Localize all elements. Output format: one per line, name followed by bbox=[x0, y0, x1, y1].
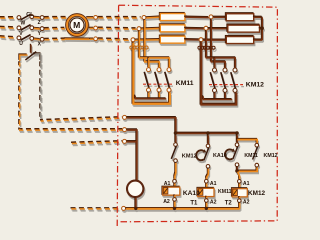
slip ring 2 bbox=[136, 46, 139, 49]
contact KM12 pole 3 bottom bbox=[233, 88, 237, 92]
wire L1 motor to terminal bbox=[86, 16, 93, 18]
contact KM12 pole 1 bottom bbox=[213, 88, 217, 92]
wire lamp feed bbox=[126, 129, 136, 180]
contact KA10 blade bbox=[204, 148, 209, 161]
wire L2 switch to motor dashed bbox=[44, 26, 65, 28]
node KM11 A1 bbox=[205, 179, 209, 183]
resistor R22 bbox=[227, 24, 259, 31]
contact KM12 bottom bbox=[174, 159, 178, 163]
contact KM12 pole 2 bottom bbox=[223, 88, 227, 92]
motor M ring inner outline bbox=[68, 16, 85, 33]
wire R21 lead-out bbox=[253, 15, 262, 17]
node L1 switch mid terminal bbox=[30, 15, 34, 19]
lamp HL1 bbox=[127, 181, 143, 197]
wire R23 lead-in bbox=[203, 38, 226, 40]
contact KM11 pole 2 top bbox=[157, 68, 161, 72]
enclosure border left bbox=[117, 5, 118, 226]
node R21 input terminal bbox=[209, 15, 213, 19]
switch CL pole 3 blade bbox=[21, 35, 31, 41]
node L1 enclosure terminal bbox=[142, 16, 146, 20]
svg-text:A2: A2 bbox=[210, 199, 217, 205]
contact KM12b blade bbox=[253, 147, 258, 160]
wire L1 rotor lead dashed bbox=[98, 16, 141, 18]
wire KM11 to rail bbox=[205, 202, 207, 208]
node L1 switch left terminal bbox=[17, 16, 21, 20]
wire KM12 left bypass bbox=[201, 41, 236, 103]
slip ring stage2 2 bbox=[203, 46, 206, 49]
node KM12 A1 bbox=[238, 180, 242, 184]
node L1 rotor terminal bbox=[94, 16, 98, 20]
wire input3 stub bbox=[126, 140, 135, 142]
switch Q2 left arm bbox=[19, 54, 27, 60]
svg-text:KM11: KM11 bbox=[244, 153, 258, 159]
contact KA10 bottom bbox=[206, 165, 210, 169]
wire L3 motor to terminal bbox=[89, 37, 93, 39]
wire control rail bbox=[175, 131, 237, 133]
node L2 terminal bbox=[40, 27, 44, 31]
motor M body bbox=[70, 18, 84, 32]
node L2 switch mid terminal bbox=[30, 26, 34, 30]
node R22 input terminal bbox=[204, 26, 208, 30]
contact KM12 blade bbox=[171, 146, 176, 159]
svg-text:A1: A1 bbox=[243, 181, 250, 187]
node KM11 A2 bbox=[205, 199, 209, 203]
contact KM12b top bbox=[255, 143, 259, 147]
junction rail-KM11 bbox=[206, 131, 210, 135]
junction rail-lamp bbox=[134, 207, 137, 210]
enclosure border bbox=[118, 5, 278, 222]
wire R11 lead-in bbox=[146, 15, 161, 18]
wire KM12 bottom lead bbox=[238, 196, 240, 198]
switch Q2 right arm bbox=[33, 53, 40, 60]
svg-text:CL: CL bbox=[26, 12, 34, 18]
switch Q2 stem bbox=[29, 44, 31, 53]
wire branch2 upper bbox=[207, 134, 209, 143]
svg-text:A2: A2 bbox=[243, 200, 250, 206]
svg-text:U: U bbox=[19, 41, 23, 47]
wire L2 rotor lead dashed bbox=[98, 26, 136, 29]
wire bottom rail bbox=[125, 207, 239, 209]
contact KM12 top bbox=[174, 143, 178, 147]
svg-text:M: M bbox=[73, 20, 80, 30]
wire control feed D dashed (bottom) bbox=[71, 207, 121, 209]
wire R13 lead-out bbox=[184, 38, 208, 41]
motor M outer outline bbox=[66, 14, 89, 37]
wire KM12 to rail bbox=[238, 202, 240, 208]
wire KM12 drop 2 bbox=[206, 30, 235, 67]
node L3 enclosure terminal bbox=[131, 38, 135, 42]
mechanical link KM11 bbox=[143, 83, 174, 85]
wire KM12 drop 1 bbox=[211, 19, 225, 68]
wire L1 after switch bbox=[33, 15, 40, 18]
contact KM11 pole 1 top bbox=[147, 68, 151, 72]
wire control feed A vertical dashed bbox=[39, 61, 41, 120]
wire KM11 left bypass bbox=[133, 42, 170, 103]
wire control feed A horizontal dashed bbox=[40, 117, 122, 120]
wire KM11 pole 2 to bus bbox=[158, 92, 160, 98]
switch Q2 blade bbox=[25, 52, 36, 60]
wire R12 lead-out bbox=[184, 26, 208, 29]
contact KM12 pole 2 top bbox=[223, 68, 227, 72]
wire control feed B dashed bbox=[19, 61, 122, 129]
wire KM12 star bus bbox=[203, 95, 232, 98]
wire R22 lead-in bbox=[208, 27, 228, 29]
svg-text:Z: Z bbox=[38, 20, 41, 26]
node control input 3 bbox=[123, 139, 127, 143]
node L3 terminal bbox=[40, 37, 44, 41]
wire branch2 lower bbox=[206, 168, 208, 179]
contact KM11 pole 1 bottom bbox=[147, 88, 151, 92]
contact KM12 pole 1 top bbox=[213, 68, 217, 72]
wire phase L2 supply dashed bbox=[0, 25, 16, 28]
junction rail-KM12 bbox=[235, 131, 239, 135]
contact KM11 pole 3 bottom bbox=[167, 88, 171, 92]
junction branch3 bbox=[235, 169, 239, 173]
wire KM11 drop 2 bbox=[139, 30, 169, 67]
wire branch1 lower bbox=[174, 162, 175, 179]
svg-text:A2: A2 bbox=[163, 199, 170, 205]
wire KA10 top lead bbox=[173, 183, 175, 187]
slip ring 3 bbox=[142, 46, 145, 49]
svg-text:T2: T2 bbox=[225, 201, 233, 207]
wire R11 lead-out bbox=[184, 15, 208, 18]
wire phase L3 supply dashed bbox=[0, 36, 16, 37]
wire KA10 bottom lead bbox=[173, 194, 175, 197]
contact KM11 pole 3 blade bbox=[165, 72, 170, 88]
junction rail-KM11b bbox=[205, 207, 208, 210]
svg-text:KA10: KA10 bbox=[213, 153, 227, 159]
wire KM11 star bus bbox=[135, 95, 166, 98]
node L3 rotor terminal bbox=[94, 37, 98, 41]
coil KM11 bbox=[197, 187, 213, 195]
wire L1 switch to motor dashed bbox=[44, 16, 67, 18]
switch CL pole 1 blade bbox=[21, 14, 31, 20]
contact KM12 pole 1 blade bbox=[210, 72, 215, 88]
node rail left terminal bbox=[122, 206, 126, 210]
wire R23 lead-out bbox=[253, 38, 262, 40]
junction rail-KA10b bbox=[173, 207, 176, 210]
svg-text:A1: A1 bbox=[210, 181, 217, 187]
contact KM11b bottom bbox=[235, 163, 239, 167]
svg-text:KM12: KM12 bbox=[248, 190, 265, 197]
slip ring stage2 1 bbox=[198, 46, 201, 49]
contact KM11 pole 1 blade bbox=[144, 72, 149, 88]
wire star point bbox=[261, 16, 263, 39]
contact KM11b blade bbox=[233, 147, 238, 160]
operator arrow KM11 bbox=[225, 149, 233, 159]
mechanical link KM12 bbox=[209, 84, 243, 86]
svg-text:KA10: KA10 bbox=[183, 190, 200, 197]
wire L3 switch to motor dashed bbox=[44, 37, 64, 39]
coil KA10 bbox=[162, 186, 179, 194]
wire R22 lead-out bbox=[259, 27, 262, 29]
junction star bbox=[260, 26, 264, 30]
node L3 switch mid terminal bbox=[30, 37, 34, 41]
contact KA10 top bbox=[206, 144, 210, 148]
wire R13 lead-in bbox=[135, 38, 161, 41]
node L2 switch left terminal bbox=[17, 26, 21, 30]
svg-text:KM12: KM12 bbox=[246, 81, 264, 88]
wire L3 under motor bbox=[64, 37, 89, 39]
resistor R11 bbox=[160, 13, 185, 20]
wire KM11 pole1 feed bbox=[147, 57, 149, 67]
wire R12 lead-in bbox=[141, 26, 161, 29]
resistor R12 bbox=[160, 24, 185, 31]
node KM12 A2 bbox=[238, 199, 242, 203]
wire branch3 join bbox=[238, 167, 257, 171]
node L1 terminal bbox=[40, 16, 44, 20]
wire branch3 upper bbox=[236, 134, 238, 142]
operator arrow KA10 bbox=[196, 150, 204, 160]
wire KM12 pole1 feed bbox=[213, 57, 215, 67]
contact KM12 pole 2 blade bbox=[221, 72, 226, 88]
resistor R21 bbox=[226, 13, 253, 20]
wire branch3 split bbox=[237, 139, 257, 143]
node KA10 A1 bbox=[173, 179, 177, 183]
svg-text:KM11: KM11 bbox=[176, 80, 194, 87]
svg-text:KM12: KM12 bbox=[182, 153, 197, 159]
svg-text:KM11: KM11 bbox=[218, 189, 232, 195]
contact KM12 pole 3 top bbox=[233, 68, 237, 72]
node L2 enclosure terminal bbox=[137, 27, 141, 31]
slip ring stage2 3 bbox=[209, 46, 212, 49]
wire L2 after switch bbox=[33, 26, 40, 29]
node control input 1 bbox=[123, 115, 127, 119]
wire KM11 drop 1 bbox=[144, 19, 159, 67]
svg-text:KM12: KM12 bbox=[264, 153, 278, 159]
contact KM11 pole 2 blade bbox=[155, 72, 160, 88]
wire R21 lead-in bbox=[213, 15, 226, 17]
wire KM11 top lead bbox=[205, 183, 207, 188]
wire KM12 pole 1 to bus bbox=[213, 92, 215, 99]
resistor R23 bbox=[226, 36, 253, 43]
switch CL pole 2 blade bbox=[21, 25, 31, 31]
svg-text:A1: A1 bbox=[164, 181, 171, 187]
contact KM11 pole 2 bottom bbox=[157, 88, 161, 92]
wire lamp to rail bbox=[134, 197, 136, 208]
wire control top feed bbox=[126, 117, 175, 133]
node L3 switch left terminal bbox=[17, 36, 21, 40]
wire branch3 lower bbox=[237, 171, 239, 179]
wire L3 rotor lead dashed bbox=[98, 38, 130, 39]
wire KM12 pole 2 to bus bbox=[224, 92, 226, 99]
wire KM11 bottom lead bbox=[205, 196, 207, 198]
wire L2 motor to terminal bbox=[89, 26, 93, 28]
slip ring 1 bbox=[130, 46, 133, 49]
wire KM11 pole 1 to bus bbox=[147, 92, 149, 98]
contact KM12b bottom bbox=[255, 163, 259, 167]
node R23 input terminal bbox=[199, 38, 203, 42]
coil KM12 bbox=[232, 188, 247, 196]
svg-text:T1: T1 bbox=[190, 200, 198, 206]
wire branch3 stub bbox=[236, 166, 238, 170]
motor M outer ring bbox=[67, 15, 87, 35]
wire KA10 to rail bbox=[173, 201, 175, 208]
wire branch1 upper bbox=[174, 134, 176, 142]
contact KM11 pole 3 top bbox=[167, 68, 171, 72]
junction rail-KA10 bbox=[174, 131, 178, 135]
node L2 rotor terminal bbox=[94, 26, 98, 30]
contact KM11b top bbox=[235, 143, 239, 147]
resistor R13 bbox=[160, 35, 185, 42]
svg-text:W: W bbox=[21, 21, 26, 27]
contact KM12 pole 3 blade bbox=[231, 72, 236, 88]
wire control feed C dashed bbox=[71, 141, 122, 143]
node KA10 A2 bbox=[173, 198, 177, 202]
node control input 2 bbox=[123, 128, 127, 132]
wire phase L1 supply dashed bbox=[0, 16, 16, 18]
wire L3 after switch bbox=[33, 37, 40, 40]
wire KM12 top lead bbox=[238, 183, 240, 188]
